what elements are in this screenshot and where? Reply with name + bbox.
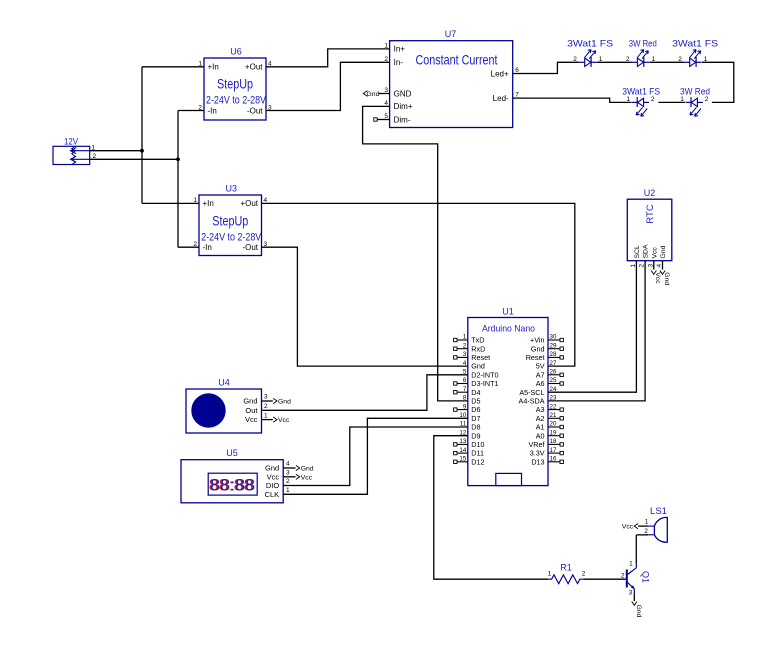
wire U7 Led+ to LED chain [513, 62, 580, 73]
pin 6 D3-INT1 (U1 left) [454, 377, 499, 388]
svg-text:15: 15 [459, 456, 466, 463]
power port Gnd (U4 pin 3) [262, 398, 292, 405]
svg-text:19: 19 [550, 429, 557, 436]
svg-text:20: 20 [550, 421, 557, 428]
svg-text:A0: A0 [536, 431, 545, 440]
pin 7 D4 (U1 left) [454, 386, 481, 397]
svg-text:26: 26 [550, 369, 557, 376]
pin 13 D10 (U1 left) [454, 438, 485, 449]
svg-text:Led-: Led- [493, 94, 509, 103]
svg-text:Dim-: Dim- [394, 115, 411, 124]
svg-text:-Out: -Out [247, 106, 263, 115]
wire LED D2 to D3 [650, 61, 685, 63]
wire U7 Dim+ to U1 D5 [363, 106, 468, 401]
svg-text:29: 29 [550, 342, 557, 349]
svg-text:7: 7 [463, 386, 467, 393]
wire U4 Gnd stub [262, 400, 273, 402]
pin 18 VRef (U1 right) [529, 438, 564, 449]
wire to U6 +In [142, 66, 204, 68]
svg-text:2: 2 [626, 56, 630, 63]
svg-text:Vcc: Vcc [245, 415, 258, 424]
wire -12V vertical rail [177, 111, 179, 248]
svg-text:-Out: -Out [242, 243, 258, 252]
sensor module U4 [186, 389, 262, 433]
svg-text:6: 6 [463, 377, 467, 384]
svg-text:17: 17 [550, 447, 557, 454]
pin 30 +Vin (U1 right) [530, 334, 563, 345]
LED 3Wat1 FS (pins 1 left, 2 right) [632, 97, 649, 116]
svg-text:3: 3 [264, 394, 268, 401]
svg-text:12V: 12V [64, 137, 78, 147]
wire Gnd port to U7 GND [379, 93, 390, 95]
svg-text:1: 1 [704, 56, 708, 63]
svg-text:D10: D10 [471, 440, 484, 449]
wire Dim- stub [377, 119, 389, 121]
svg-text:U5: U5 [226, 448, 238, 458]
display module U5 [181, 460, 283, 503]
svg-text:4: 4 [286, 461, 290, 468]
wire U2 Vcc stub [653, 261, 655, 270]
svg-text:3Wat1 FS: 3Wat1 FS [672, 39, 718, 49]
svg-text:A3: A3 [536, 405, 545, 414]
pin 27 5V (U1 right) [536, 360, 557, 371]
svg-text:18: 18 [550, 438, 557, 445]
wire LED D4 to U7 Led- [513, 98, 632, 102]
pin 14 D11 (U1 left) [454, 447, 484, 458]
svg-text:Gnd: Gnd [663, 272, 670, 285]
svg-text:27: 27 [550, 360, 557, 367]
svg-text:1: 1 [680, 96, 684, 103]
svg-text:CLK: CLK [265, 490, 280, 499]
pin 4 Gnd (U1 left) [463, 360, 485, 371]
power port Gnd (Q1 emitter) [632, 602, 642, 618]
wire U6 +Out to U7 In+ [266, 49, 390, 67]
microcontroller U1 Arduino Nano [468, 318, 548, 486]
svg-text:U2: U2 [644, 188, 656, 198]
svg-text:SDA: SDA [643, 244, 650, 258]
wire to U6 -In [178, 110, 204, 112]
svg-text:Gnd: Gnd [265, 464, 279, 473]
svg-text:Vcc: Vcc [622, 524, 634, 531]
svg-text:2: 2 [644, 528, 648, 535]
svg-text:1: 1 [286, 487, 290, 494]
wire +12V vertical rail [141, 67, 143, 204]
svg-text:Gnd: Gnd [471, 362, 485, 371]
svg-text:D11: D11 [471, 449, 484, 458]
svg-text:14: 14 [459, 447, 466, 454]
wire LED D1 to D2 [597, 61, 632, 63]
svg-text:Led+: Led+ [491, 69, 509, 78]
pin 24 A5-SCL (U1 right) [519, 386, 557, 397]
svg-text:2: 2 [678, 56, 682, 63]
svg-text:A2: A2 [536, 414, 545, 423]
svg-text:VRef: VRef [529, 440, 545, 449]
pin 16 D13 (U1 right) [531, 456, 563, 467]
wire U2 SDA to U1 A4-SDA [548, 261, 645, 401]
svg-text:3: 3 [463, 351, 467, 358]
svg-text:1: 1 [384, 42, 388, 49]
svg-text:13: 13 [459, 438, 466, 445]
svg-text:StepUp: StepUp [217, 77, 253, 92]
svg-text:D9: D9 [471, 431, 480, 440]
svg-text:Vcc: Vcc [651, 247, 658, 259]
svg-text:Constant Current: Constant Current [416, 52, 498, 68]
svg-text:Reset: Reset [471, 353, 490, 362]
svg-text:Gnd: Gnd [367, 91, 380, 98]
svg-text:+Out: +Out [245, 63, 263, 72]
svg-text:1: 1 [463, 334, 467, 341]
svg-text:D8: D8 [471, 423, 480, 432]
svg-text:2: 2 [651, 96, 655, 103]
svg-text:1: 1 [651, 56, 655, 63]
pin 11 D8 (U1 left) [460, 421, 481, 432]
svg-text:1: 1 [193, 197, 197, 204]
svg-text:Gnd: Gnd [660, 245, 667, 258]
power port Gnd (U5 pin 4) [283, 465, 314, 472]
pin 20 A1 (U1 right) [536, 421, 564, 432]
LED 3Wat1 FS (pins 2 left, 1 right) [684, 50, 701, 67]
svg-text:In-: In- [394, 58, 404, 67]
svg-text:D7: D7 [471, 414, 480, 423]
LED 3W Red (pins 1 left, 2 right) [686, 97, 703, 116]
svg-text:+Vin: +Vin [530, 336, 544, 345]
wire U2 SCL to U1 A5-SCL [548, 261, 636, 393]
svg-text:2: 2 [286, 478, 290, 485]
LED 3Wat1 FS (pins 2 left, 1 right) [579, 50, 596, 67]
svg-text:1: 1 [599, 56, 603, 63]
no-connect square (U7 Dim-) [374, 118, 390, 121]
svg-text:-In: -In [203, 243, 212, 252]
wire U5 Vcc stub [283, 476, 295, 478]
svg-text:Q1: Q1 [641, 571, 651, 583]
pin 12 D9 (U1 left) [459, 429, 480, 440]
wire LED D3 down to D5 [702, 62, 734, 102]
wire Q1 collector to LS1 [635, 535, 637, 563]
svg-text:TxD: TxD [471, 336, 484, 345]
svg-text:Gnd: Gnd [635, 605, 642, 618]
power port Vcc (LS1 pin 1) [622, 524, 648, 531]
svg-text:2: 2 [463, 342, 467, 349]
svg-text:2: 2 [384, 56, 388, 63]
svg-text:2: 2 [573, 56, 577, 63]
pin 22 A3 (U1 right) [536, 403, 564, 414]
svg-text:1: 1 [645, 519, 649, 526]
pin 23 A4-SDA (U1 right) [519, 395, 557, 406]
svg-text:GND: GND [394, 89, 412, 98]
svg-text:D6: D6 [471, 405, 480, 414]
svg-text:2: 2 [705, 96, 709, 103]
pin 21 A2 (U1 right) [536, 412, 564, 423]
svg-text:1: 1 [198, 61, 202, 68]
svg-text:2: 2 [198, 104, 202, 111]
svg-text:LS1: LS1 [650, 506, 667, 517]
svg-text:D13: D13 [531, 457, 544, 466]
svg-text:16: 16 [550, 456, 557, 463]
wire U4 Out to U1 D2-INT0 [262, 375, 468, 411]
wire U4 Vcc stub [262, 419, 273, 421]
svg-text:88:88: 88:88 [210, 477, 255, 495]
wire U1 D9 to R1 [434, 436, 548, 580]
svg-text:1: 1 [626, 96, 630, 103]
junction +12V rail [140, 149, 144, 153]
svg-text:Gnd: Gnd [301, 466, 314, 473]
pin 25 A6 (U1 right) [536, 377, 564, 388]
wire U6 -Out to U7 In- [266, 62, 390, 110]
svg-text:1: 1 [629, 561, 633, 568]
svg-text:D3-INT1: D3-INT1 [471, 379, 498, 388]
wire R1 to Q1 base [583, 578, 626, 580]
pin 19 A0 (U1 right) [536, 429, 564, 440]
svg-text:22: 22 [550, 403, 557, 410]
pin 2 RxD (U1 left) [454, 342, 486, 353]
svg-text:1: 1 [264, 412, 268, 419]
svg-text:-In: -In [208, 106, 217, 115]
svg-text:D5: D5 [471, 397, 480, 406]
svg-text:8: 8 [463, 395, 467, 402]
pin 17 3.3V (U1 right) [530, 447, 564, 458]
svg-text:D2-INT0: D2-INT0 [471, 370, 498, 379]
wire U3 -Out to U1 Gnd [262, 247, 468, 366]
transistor Q1 [627, 563, 637, 594]
connector 12V [53, 146, 90, 164]
pin 26 A7 (U1 right) [536, 369, 564, 380]
wire LED D5 to D4 [658, 101, 685, 103]
svg-text:Vcc: Vcc [278, 417, 290, 424]
svg-text:Gnd: Gnd [278, 399, 291, 406]
svg-text:Gnd: Gnd [531, 344, 545, 353]
pin 3 Reset (U1 left) [454, 351, 490, 362]
svg-text:Vcc: Vcc [654, 272, 661, 284]
svg-text:SCL: SCL [634, 245, 641, 258]
wire to U3 +In [142, 202, 199, 204]
resistor R1 [548, 575, 583, 584]
svg-text:9: 9 [463, 403, 467, 410]
pin 28 Reset (U1 right) [526, 351, 564, 362]
svg-text:3: 3 [629, 590, 633, 597]
LED 3W Red (pins 2 left, 1 right) [632, 50, 649, 67]
svg-text:D4: D4 [471, 388, 480, 397]
svg-text:+In: +In [203, 199, 214, 208]
svg-text:U3: U3 [225, 184, 237, 194]
wire LS1 pin2 to collector [636, 534, 648, 536]
svg-text:21: 21 [550, 412, 557, 419]
svg-text:5V: 5V [536, 362, 545, 371]
wire LS1 pin1 stub [638, 525, 648, 527]
wire Q1 emitter to Gnd port [633, 594, 635, 602]
svg-text:Gnd: Gnd [243, 397, 257, 406]
svg-text:4: 4 [463, 360, 467, 367]
pin 10 D7 (U1 left) [459, 412, 480, 423]
pin 29 Gnd (U1 right) [531, 342, 563, 353]
wire U5 DIO to U1 D8 [283, 427, 468, 486]
svg-text:U4: U4 [218, 378, 230, 388]
svg-text:A6: A6 [536, 379, 545, 388]
svg-text:In+: In+ [394, 45, 406, 54]
wire U2 Gnd stub [662, 261, 664, 270]
pin 15 D12 (U1 left) [454, 456, 485, 467]
svg-text:2-24V to 2-28V: 2-24V to 2-28V [206, 95, 267, 107]
svg-text:A7: A7 [536, 370, 545, 379]
pin 1 TxD (U1 left) [454, 334, 485, 345]
svg-text:A5-SCL: A5-SCL [519, 388, 544, 397]
svg-text:2: 2 [264, 403, 268, 410]
wire U5 Gnd stub [283, 467, 295, 469]
svg-text:3Wat1 FS: 3Wat1 FS [567, 39, 613, 49]
wire to U3 -In [178, 246, 199, 248]
svg-text:24: 24 [550, 386, 557, 393]
wire 12V pin2 to -12V rail [90, 158, 178, 160]
svg-text:1: 1 [548, 571, 552, 578]
svg-text:D12: D12 [471, 457, 484, 466]
svg-text:DIO: DIO [266, 481, 280, 490]
StepUp converter U3 [199, 195, 262, 256]
constant current driver U7 [390, 41, 513, 128]
svg-text:RxD: RxD [471, 344, 485, 353]
svg-text:A1: A1 [536, 423, 545, 432]
pin 5 D2-INT0 (U1 left) [463, 369, 499, 380]
svg-text:U7: U7 [445, 29, 457, 39]
wire U5 CLK to U1 D7 [283, 418, 468, 494]
wire 12V pin1 to +12V rail [90, 150, 142, 152]
RTC module U2 [627, 199, 672, 261]
svg-text:R1: R1 [560, 563, 572, 573]
pin 9 D6 (U1 left) [454, 403, 481, 414]
power port Vcc (U2 pin 3) [651, 261, 661, 285]
wire U3 +Out to U1 5V [262, 203, 575, 366]
svg-text:RTC: RTC [645, 204, 656, 223]
svg-text:StepUp: StepUp [212, 214, 248, 229]
loudspeaker LS1 [648, 517, 667, 542]
svg-text:Dim+: Dim+ [394, 102, 413, 111]
svg-text:3: 3 [286, 470, 290, 477]
svg-text:+In: +In [208, 63, 219, 72]
svg-text:28: 28 [550, 351, 557, 358]
svg-text:Out: Out [245, 406, 258, 415]
junction -12V rail [176, 157, 180, 161]
svg-text:A4-SDA: A4-SDA [519, 397, 545, 406]
pin 8 D5 (U1 left) [463, 395, 481, 406]
svg-text:2-24V to 2-28V: 2-24V to 2-28V [201, 232, 262, 244]
svg-text:Vcc: Vcc [267, 472, 280, 481]
StepUp converter U6 [204, 58, 266, 120]
svg-text:3W Red: 3W Red [629, 39, 657, 49]
svg-text:3.3V: 3.3V [530, 449, 545, 458]
svg-text:2: 2 [621, 573, 625, 580]
svg-text:25: 25 [550, 377, 557, 384]
svg-text:Vcc: Vcc [301, 474, 313, 481]
svg-text:+Out: +Out [240, 199, 258, 208]
svg-text:2: 2 [582, 571, 586, 578]
power port Gnd (U7 pin 3) [363, 91, 389, 98]
svg-text:23: 23 [550, 395, 557, 402]
svg-text:U6: U6 [230, 47, 242, 57]
svg-text:Arduino Nano: Arduino Nano [482, 324, 535, 334]
svg-text:Reset: Reset [526, 353, 545, 362]
svg-text:30: 30 [550, 334, 557, 341]
power port Vcc (U4 pin 1) [262, 417, 290, 424]
svg-text:U1: U1 [502, 307, 514, 317]
svg-text:2: 2 [193, 241, 197, 248]
power port Gnd (U2 pin 4) [660, 261, 670, 286]
power port Vcc (U5 pin 3) [283, 474, 312, 481]
